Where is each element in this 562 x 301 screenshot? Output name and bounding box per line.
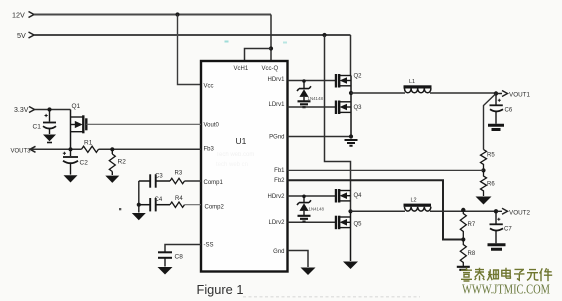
capacitor C7 output ch2: [490, 211, 504, 243]
wire Fb2 feedback line: [288, 180, 464, 239]
ground below C1: [43, 135, 56, 142]
pin label Vcc: [204, 84, 214, 90]
wire -SS pin to soft start cap: [165, 245, 201, 252]
svg-text:VOUT3: VOUT3: [11, 148, 32, 154]
node 5V port arrow: [29, 32, 35, 38]
capacitor C2: [63, 149, 78, 174]
pin label HDrv2: [267, 194, 285, 200]
transistor Q3 low side ch1: [336, 101, 351, 115]
wire L1 to VOUT1: [430, 92, 496, 94]
svg-text:WWW.JTMIC.COM: WWW.JTMIC.COM: [462, 282, 550, 297]
wire 3.3V input: [35, 109, 71, 111]
node VOUT1 label: [509, 92, 530, 99]
node junction VOUT2: [494, 209, 498, 213]
node junction VOUT1: [494, 91, 498, 95]
wire 5V drop to Q2 drain: [350, 35, 352, 76]
svg-text:C2: C2: [80, 160, 89, 167]
svg-text:1N4148: 1N4148: [309, 207, 325, 212]
pin label Vout0: [204, 123, 220, 129]
svg-text:C7: C7: [504, 227, 512, 233]
diode D1 1N4148 clamp: [297, 81, 311, 101]
C4 value label: [155, 197, 163, 203]
node junction R7 tap: [461, 208, 465, 212]
R3 reference label: [175, 171, 183, 177]
L1 reference label: [409, 79, 415, 85]
resistor R5: [481, 150, 487, 171]
wire VOUT3 / Fb3 line: [30, 148, 201, 150]
node VOUT2 port arrow: [496, 208, 508, 214]
ground below Gnd pin: [301, 268, 316, 276]
wire 12V down to Vcc pin: [178, 15, 202, 85]
svg-text:C8: C8: [175, 254, 184, 261]
ground below C8: [158, 267, 173, 275]
pin label HDrv1: [267, 77, 285, 83]
svg-text:Vout0: Vout0: [204, 123, 220, 129]
pin label Fb2: [274, 178, 285, 184]
C2 value label: [80, 160, 89, 167]
ground below R8: [457, 267, 470, 270]
Q4 reference label: [354, 193, 363, 199]
IC reference designator U1: [236, 136, 247, 146]
svg-text:Fb3: Fb3: [204, 147, 215, 153]
wire 5V mid rail down for channel 2: [325, 35, 351, 212]
C8 value label: [175, 254, 184, 261]
node VOUT1 port arrow: [496, 91, 508, 97]
R6 reference label: [487, 182, 495, 188]
node junction Q1 drain on VOUT3 line: [68, 147, 72, 151]
Q5 reference label: [354, 222, 363, 228]
svg-text:R8: R8: [468, 251, 476, 257]
wire 5V rail: [34, 34, 351, 36]
R1 reference label: [84, 140, 93, 147]
svg-text:L1: L1: [409, 79, 415, 85]
resistor R1: [82, 146, 99, 152]
svg-text:R1: R1: [84, 140, 93, 147]
R7 reference label: [468, 222, 476, 228]
svg-text:3.3V: 3.3V: [14, 107, 29, 114]
svg-text:Vcc: Vcc: [204, 84, 214, 90]
svg-text:Fb1: Fb1: [274, 168, 285, 174]
svg-text:Q1: Q1: [72, 103, 81, 110]
pin label Comp1: [204, 180, 224, 186]
capacitor C4: [139, 198, 170, 211]
diode D2 1N4148 clamp: [297, 196, 311, 215]
node junction diode D1 tap: [302, 79, 306, 83]
wire Q2 source to switch node 1: [350, 76, 352, 94]
R5 reference label: [487, 153, 495, 159]
svg-text:C1: C1: [33, 124, 42, 131]
ground below C6: [488, 125, 504, 129]
transistor Q2 high side ch1: [336, 74, 351, 88]
ground below C7: [488, 245, 506, 250]
resistor R2: [109, 149, 115, 175]
faint watermark remnant inside IC: [216, 152, 254, 168]
D1 value label 1N4148: [308, 96, 324, 101]
node junction C1 tap: [47, 107, 51, 111]
node junction on 5V rail: [322, 33, 326, 37]
pin label PGnd: [269, 135, 284, 141]
wire switch node 2 to L2: [351, 210, 406, 212]
capacitor C6 output ch1: [490, 94, 504, 124]
wire Fb1 feedback line: [288, 169, 484, 171]
svg-text:VOUT1: VOUT1: [509, 92, 530, 99]
wire Gnd pin to ground: [288, 251, 309, 268]
inductor L1: [404, 85, 432, 93]
cyan artifact speck 1: [225, 41, 229, 43]
C6 value label: [505, 108, 513, 114]
wire Q5 source to ground: [350, 211, 352, 261]
node 5V label: [17, 31, 26, 40]
wire VOUT1 node down to R5: [484, 94, 497, 150]
node 3.3V port arrow: [29, 107, 35, 113]
L2 reference label: [411, 198, 417, 204]
wire 12V rail: [34, 14, 271, 16]
pin label LDrv2: [268, 220, 285, 226]
svg-text:R7: R7: [468, 222, 476, 228]
pin label Gnd: [273, 249, 284, 255]
node junction diode D2 tap: [302, 195, 306, 199]
svg-text:R4: R4: [175, 196, 183, 202]
svg-text:C3: C3: [155, 174, 163, 180]
svg-text:R2: R2: [118, 159, 127, 166]
ground below comp rail: [132, 213, 146, 220]
inductor L2: [404, 204, 432, 212]
svg-text:VcH1: VcH1: [234, 66, 249, 72]
wire HDrv2 to Q4 gate: [288, 195, 337, 197]
caption dotted underline: [243, 296, 420, 298]
C1 value label: [33, 124, 42, 131]
caption Figure 1: [197, 282, 244, 297]
svg-text:Comp1: Comp1: [204, 180, 224, 186]
R8 reference label: [468, 251, 476, 257]
svg-text:Figure 1: Figure 1: [197, 282, 244, 297]
node junction R1/R2 divider: [110, 147, 114, 151]
capacitor C8 soft start: [158, 252, 172, 266]
Q1 reference label: [72, 103, 81, 110]
resistor R8: [460, 240, 466, 267]
node 3.3V label: [14, 107, 29, 114]
svg-text:R6: R6: [487, 182, 495, 188]
cyan artifact speck 2: [283, 42, 287, 44]
svg-text:C6: C6: [505, 108, 513, 114]
D2 value label 1N4148: [309, 207, 325, 212]
svg-text:Tech web.com: Tech web.com: [216, 152, 254, 158]
wire 12V drop to Vcc-Q pin: [270, 15, 272, 61]
ground below D1: [298, 101, 311, 107]
svg-text:PGnd: PGnd: [269, 135, 284, 141]
R2 reference label: [118, 159, 127, 166]
transistor Q4 high side ch2: [336, 189, 351, 203]
resistor R3: [170, 178, 185, 183]
ground below R6: [476, 197, 492, 205]
svg-text:VOUT2: VOUT2: [509, 209, 530, 216]
transistor Q5 low side ch2: [336, 216, 351, 230]
pin label Comp2: [205, 205, 225, 211]
Q2 reference label: [354, 74, 363, 80]
node junction R5/R6 divider: [481, 168, 485, 172]
svg-text:tech web cn: tech web cn: [216, 162, 248, 168]
node VOUT3 label: [11, 148, 32, 154]
pin label Vcc-Q: [262, 66, 279, 72]
svg-text:Q4: Q4: [354, 193, 363, 199]
svg-text:R5: R5: [487, 153, 495, 159]
svg-text:Gnd: Gnd: [273, 249, 284, 255]
resistor R4: [170, 202, 185, 207]
pin label Fb3: [204, 147, 215, 153]
pin label LDrv1: [268, 102, 285, 108]
capacitor C1: [43, 110, 56, 135]
ground below R2: [105, 176, 119, 183]
node junction VcH1 branch: [269, 46, 273, 50]
ground below PGnd junction: [345, 140, 358, 146]
svg-text:5V: 5V: [17, 31, 26, 40]
node junction switch node 2: [348, 209, 352, 213]
wire comp network ground rail: [138, 181, 140, 213]
transistor Q1 (pass PFET): [71, 110, 87, 150]
C7 value label: [504, 227, 512, 233]
wire switch node 1 to L1: [351, 92, 405, 94]
ground below C2: [64, 175, 78, 182]
wire HDrv1 to Q2 gate: [288, 80, 337, 82]
svg-text:R3: R3: [175, 171, 183, 177]
node junction R7/R8 divider: [461, 237, 465, 241]
svg-text:U1: U1: [236, 136, 247, 146]
ground below Q5: [343, 262, 358, 270]
wire LDrv1 to Q3 gate: [288, 106, 337, 108]
wire Q3 drain/source vertical: [350, 93, 352, 137]
wire branch to VcH1 pin: [245, 49, 272, 61]
resistor R7: [460, 211, 466, 239]
wire R4 to Comp2 pin: [185, 204, 202, 206]
svg-text:HDrv2: HDrv2: [267, 194, 285, 200]
svg-text:Q5: Q5: [354, 222, 363, 228]
svg-text:LDrv2: LDrv2: [268, 220, 285, 226]
op-amp U1 controller IC body: [201, 61, 288, 272]
node junction switch node 1: [349, 91, 353, 95]
svg-text:C4: C4: [155, 197, 163, 203]
svg-text:HDrv1: HDrv1: [267, 77, 285, 83]
wire PGnd to Q3 source: [288, 136, 352, 138]
node VOUT2 label: [509, 209, 530, 216]
svg-text:Vcc-Q: Vcc-Q: [262, 66, 279, 72]
Q3 reference label: [354, 105, 363, 111]
C3 value label: [155, 174, 163, 180]
wire R3 to Comp1 pin: [185, 180, 202, 182]
svg-text:L2: L2: [411, 198, 417, 204]
ground below D2: [298, 216, 311, 222]
R4 reference label: [175, 196, 183, 202]
node junction PGnd: [349, 134, 353, 138]
pin label Fb1: [274, 168, 285, 174]
stray ink speck: [119, 208, 121, 210]
node junction C4 tap: [137, 203, 141, 207]
pin label VcH1: [234, 66, 249, 72]
svg-text:Q2: Q2: [354, 74, 363, 80]
watermark chinese characters 嘉泰姆电子元件: [461, 268, 552, 282]
svg-text:LDrv1: LDrv1: [268, 102, 285, 108]
node 12V label: [12, 11, 25, 20]
wire LDrv2 to Q5 gate: [288, 221, 337, 223]
capacitor C3: [139, 174, 170, 187]
svg-text:Fb2: Fb2: [274, 178, 285, 184]
svg-text:-SS: -SS: [204, 243, 214, 249]
svg-text:Q3: Q3: [354, 105, 363, 111]
pin label -SS: [204, 243, 214, 249]
wire L2 to VOUT2: [430, 210, 496, 212]
node junction on 12V rail: [175, 12, 179, 16]
node VOUT3 port arrow: [30, 146, 36, 152]
svg-text:Comp2: Comp2: [205, 205, 225, 211]
watermark url WWW.JTMIC.COM: [462, 282, 550, 297]
svg-text:12V: 12V: [12, 11, 25, 20]
resistor R6: [481, 170, 487, 196]
node 12V port arrow: [29, 12, 35, 18]
wire Q1 gate to Vout0 pin: [86, 123, 201, 125]
